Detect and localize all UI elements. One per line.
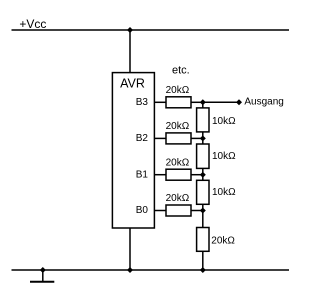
svg-text:Ausgang: Ausgang [244,97,283,108]
svg-text:etc.: etc. [172,65,190,77]
svg-text:B1: B1 [136,169,149,180]
svg-text:B2: B2 [136,133,149,144]
svg-text:10kΩ: 10kΩ [212,116,236,127]
svg-text:B3: B3 [136,97,149,108]
svg-text:AVR: AVR [120,77,145,91]
svg-text:10kΩ: 10kΩ [212,151,236,162]
svg-text:20kΩ: 20kΩ [166,121,190,132]
svg-text:20kΩ: 20kΩ [166,85,190,96]
svg-text:20kΩ: 20kΩ [166,193,190,204]
svg-text:+Vcc: +Vcc [19,17,46,31]
svg-text:10kΩ: 10kΩ [212,187,236,198]
svg-text:20kΩ: 20kΩ [166,157,190,168]
svg-text:B0: B0 [136,205,149,216]
svg-text:20kΩ: 20kΩ [211,235,235,246]
